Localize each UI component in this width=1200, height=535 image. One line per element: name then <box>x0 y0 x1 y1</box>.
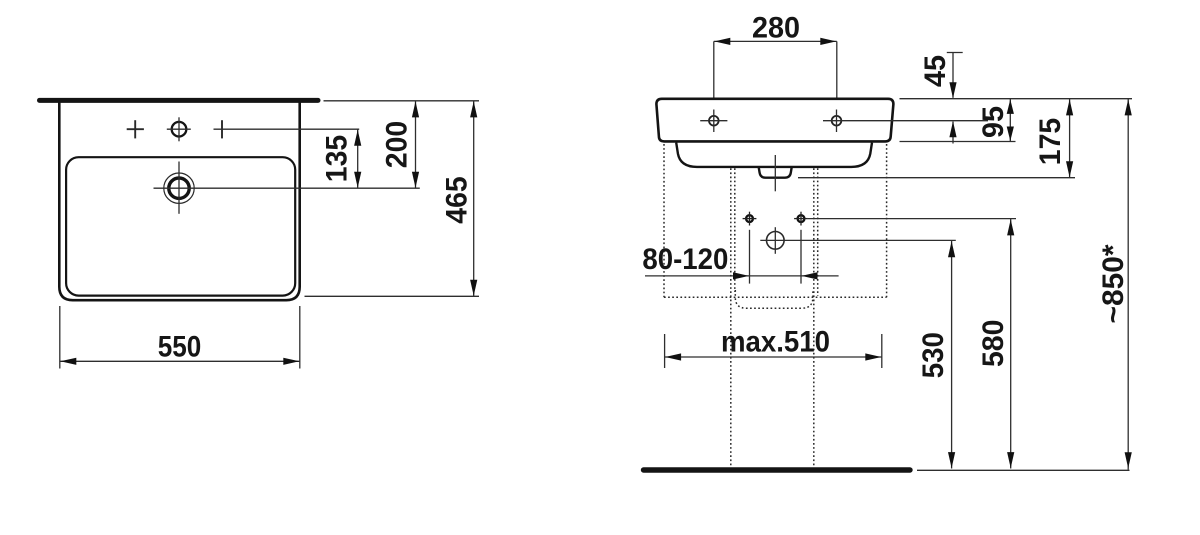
rim bottom extension line <box>900 141 1016 143</box>
drain inner circle <box>169 178 189 198</box>
svg-text:max.510: max.510 <box>721 325 830 358</box>
dimension 135 line <box>357 129 359 188</box>
pedestal hidden line inner-left <box>734 168 736 292</box>
pedestal hidden line outer-right <box>817 168 819 296</box>
dimension 550 line <box>60 360 300 362</box>
dimension 95 arrows <box>1007 99 1014 114</box>
dimension ~850 line <box>1127 99 1129 470</box>
drain crosshair vertical <box>178 162 180 214</box>
dimension 530 arrows <box>948 241 955 257</box>
dimension 550 arrows <box>60 358 76 365</box>
rim top extension line <box>900 98 1133 100</box>
svg-text:280: 280 <box>752 11 800 44</box>
right wall-hole <box>832 116 842 126</box>
drain trap outline <box>759 167 792 178</box>
right tap mark (plus) <box>221 120 223 138</box>
pedestal hidden line outer-left <box>730 168 732 466</box>
trap extension line for 175 <box>798 177 1075 179</box>
right extension line for 550 <box>299 306 301 369</box>
svg-text:550: 550 <box>158 330 202 363</box>
dimension 465 line <box>473 101 475 296</box>
top extension line for 465 <box>324 100 480 102</box>
svg-text:80-120: 80-120 <box>642 243 728 276</box>
basin bowl outline (front view) <box>676 143 872 167</box>
floor extension line <box>917 469 1130 471</box>
drain outer circle <box>164 173 194 203</box>
dimension 45 upper line <box>952 53 954 98</box>
svg-text:580: 580 <box>977 320 1010 368</box>
right extension line for 280 <box>836 41 838 97</box>
trap centerline <box>774 155 776 191</box>
svg-text:45: 45 <box>919 55 952 87</box>
svg-text:175: 175 <box>1034 118 1067 166</box>
dimension max.510 line <box>665 356 882 358</box>
dimension 135 arrows <box>354 130 361 146</box>
drain crosshair + extension to 200 dim <box>154 187 420 189</box>
left fixing hole <box>746 215 753 222</box>
wall line (top view) <box>40 98 319 103</box>
max.510 envelope hidden right line <box>886 144 888 297</box>
right fixing-hole extension down <box>800 230 802 284</box>
left wall-hole <box>709 116 719 126</box>
max.510 envelope hidden left line <box>663 144 665 297</box>
left tap mark (plus) <box>127 128 144 130</box>
max.510 envelope hidden bottom line <box>664 296 887 298</box>
dimension 580 line <box>1010 219 1012 469</box>
tap hole crosshair <box>178 117 180 141</box>
left fixing-hole extension down <box>749 230 751 284</box>
svg-text:95: 95 <box>977 106 1010 138</box>
dimension 200 line <box>415 101 417 188</box>
dimension max.510 arrows <box>665 353 681 360</box>
left extension line for max.510 <box>664 334 666 368</box>
svg-text:~850*: ~850* <box>1097 244 1130 323</box>
bottom extension line for 465 <box>305 295 480 297</box>
extension line from right wall-hole <box>823 120 988 122</box>
dimension 175 line <box>1069 99 1071 178</box>
siphon cover hidden bottom (dashed U) <box>735 290 813 308</box>
svg-text:200: 200 <box>381 121 414 169</box>
dimension 580 arrows <box>1007 219 1014 235</box>
dimension 80-120 arrows <box>733 272 749 279</box>
svg-text:530: 530 <box>917 332 950 378</box>
dimension 200 arrows <box>412 101 419 117</box>
extension line from fixing holes to 580 dim <box>808 218 1016 220</box>
basin outer outline (top view) <box>59 101 299 300</box>
dimension 280 line <box>714 40 837 42</box>
right extension line for max.510 <box>881 334 883 368</box>
left extension line for 280 <box>713 41 715 97</box>
right fixing hole <box>798 215 805 222</box>
basin inner rim (top view) <box>66 157 295 295</box>
svg-text:465: 465 <box>441 176 474 224</box>
drain outlet cross <box>767 232 785 250</box>
floor line <box>644 467 911 472</box>
extension line from drain outlet to 530 dim <box>760 239 956 241</box>
dimension 95 line <box>1009 99 1011 141</box>
dimension 280 arrows <box>714 38 730 45</box>
dimension 530 line <box>951 241 953 469</box>
left extension line for 550 <box>59 306 61 369</box>
dimension 45 lower line <box>952 122 954 144</box>
svg-text:135: 135 <box>321 135 354 183</box>
tap hole circle <box>172 122 187 137</box>
dimension 80-120 line <box>645 275 839 277</box>
dimension 465 arrows <box>470 101 477 117</box>
dimension 175 arrows <box>1066 99 1073 115</box>
pedestal hidden line inner-right <box>813 168 815 466</box>
dimension ~850 arrows <box>1125 99 1132 115</box>
dimension 45 arrows <box>949 82 956 98</box>
extension line from right tap to 135 dim <box>214 128 360 130</box>
basin rim outline (front view) <box>656 99 893 142</box>
